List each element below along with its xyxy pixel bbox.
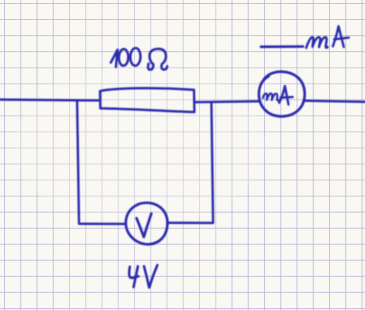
ammeter label A	[279, 86, 288, 105]
wire branch bottom right	[167, 222, 213, 224]
wire branch bottom left	[79, 223, 126, 225]
answer label m	[306, 37, 327, 48]
label 100 ohm : digit 0 first	[119, 49, 129, 66]
answer label A crossbar	[334, 38, 349, 40]
ammeter label A crossbar	[281, 96, 293, 99]
wire branch left vertical	[77, 101, 79, 223]
label 100 ohm : omega symbol	[148, 49, 167, 70]
resistor 100 ohm body	[100, 88, 194, 112]
wire resistor to ammeter	[194, 100, 259, 103]
voltmeter V circle	[126, 203, 168, 245]
answer blank line top right	[261, 45, 303, 48]
label 4V : letter V	[144, 265, 157, 287]
wire branch right vertical	[211, 102, 213, 223]
label 4V : digit 4	[129, 266, 138, 287]
answer label A	[333, 26, 344, 47]
voltmeter label V	[137, 214, 152, 237]
ammeter label m	[263, 93, 279, 100]
label 100 ohm : digit 1	[111, 50, 118, 67]
label 100 ohm : digit 0 second	[130, 48, 141, 66]
wire main left	[0, 98, 100, 101]
wire ammeter to right edge	[304, 101, 365, 102]
ammeter A circle	[259, 72, 305, 117]
